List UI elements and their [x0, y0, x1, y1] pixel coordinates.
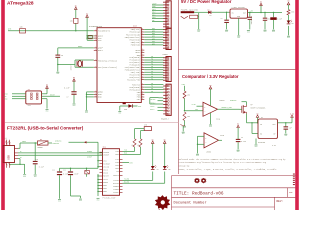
- sparkfun flame logo: [155, 195, 170, 212]
- svg-text:2X3: 2X3: [28, 105, 31, 107]
- USB connector J2: [3, 138, 14, 168]
- section line ATmega bottom: [5, 121, 178, 123]
- wire L13: [120, 106, 129, 111]
- ground power LED: [287, 36, 290, 39]
- svg-text:GND: GND: [237, 151, 240, 153]
- svg-text:9: 9: [142, 61, 143, 63]
- svg-text:5V: 5V: [237, 123, 239, 125]
- svg-text:GND: GND: [23, 176, 26, 178]
- svg-text:9: 9: [142, 33, 143, 35]
- svg-text:9: 9: [142, 71, 143, 73]
- svg-text:9: 9: [142, 36, 143, 38]
- svg-text:D13: D13: [152, 9, 155, 11]
- svg-text:RXLED: RXLED: [124, 182, 129, 184]
- svg-text:IN: IN: [232, 12, 234, 14]
- svg-text:RX: RX: [169, 169, 171, 171]
- wires 5V to VCC pins: [86, 35, 93, 40]
- title block frame: [172, 176, 296, 210]
- svg-text:GND: GND: [225, 31, 228, 33]
- svg-text:IN: IN: [260, 124, 262, 126]
- capacitor divider bypass: [180, 124, 185, 131]
- svg-text:USBVCC: USBVCC: [55, 141, 61, 143]
- title block side marks: [293, 174, 295, 186]
- svg-text:5V: 5V: [75, 5, 77, 7]
- wires to JP4: [150, 99, 163, 111]
- ground C8: [284, 134, 287, 137]
- capacitor C12: [63, 168, 80, 198]
- power jack X1: [181, 8, 199, 18]
- wire diode to regulator: [212, 12, 230, 13]
- svg-text:5V: 5V: [73, 77, 75, 79]
- ground C12: [79, 199, 82, 202]
- svg-text:1: 1: [95, 96, 96, 98]
- resistor R6 rx: [123, 131, 145, 155]
- right border bar: [295, 0, 299, 210]
- ground jack: [197, 30, 200, 33]
- svg-text:ATMEGA328P: ATMEGA328P: [89, 25, 103, 28]
- svg-text:GND: GND: [182, 133, 185, 135]
- svg-text:OUT: OUT: [243, 12, 246, 14]
- svg-text:1: 1: [95, 29, 96, 31]
- wire ISP RESET: [42, 95, 61, 97]
- svg-text:Comparator / 3.3V Regulator: Comparator / 3.3V Regulator: [182, 74, 239, 79]
- fuse F1 500mA: [38, 139, 49, 149]
- ground C1: [225, 30, 228, 33]
- svg-text:GND: GND: [79, 200, 82, 202]
- svg-text:3.3V: 3.3V: [191, 104, 195, 106]
- capacitor C7 0.1uF: [64, 88, 77, 104]
- wire D-: [15, 151, 103, 153]
- svg-text:U2: U2: [261, 117, 263, 119]
- svg-text:ATmega328: ATmega328: [7, 0, 34, 6]
- capacitor C6 AREF: [55, 48, 63, 72]
- svg-text:-: -: [204, 110, 205, 113]
- svg-text:GND: GND: [272, 31, 275, 33]
- svg-text:POWER_JACKSMD: POWER_JACKSMD: [181, 8, 199, 11]
- svg-text:16MHz: 16MHz: [71, 65, 73, 70]
- wire divider to comparator: [185, 109, 204, 111]
- svg-text:Names, D.Cuartielles, T.Igoe,: Names, D.Cuartielles, T.Igoe, G.Martino,…: [179, 168, 277, 171]
- svg-text:USBDP: USBDP: [87, 157, 92, 159]
- svg-text:9: 9: [142, 93, 143, 95]
- svg-text:TXLED: TXLED: [124, 179, 129, 181]
- voltage regulator U2 MIC5205: [258, 117, 278, 147]
- IC U1 ATMEGA328P body: [89, 25, 141, 103]
- svg-text:D12: D12: [152, 12, 155, 14]
- svg-text:9: 9: [142, 78, 143, 80]
- svg-text:9: 9: [142, 96, 143, 98]
- wire Q1 drain to regulator: [240, 109, 259, 123]
- capacitor C1 input: [221, 12, 229, 29]
- svg-text:MOSFET-PCHANNEL: MOSFET-PCHANNEL: [251, 106, 266, 109]
- svg-text:ADC: ADC: [152, 37, 155, 40]
- supply 5V arrow C7: [73, 77, 76, 91]
- svg-text:AREF: AREF: [152, 3, 156, 6]
- header JP2: [166, 28, 171, 49]
- svg-text:GND: GND: [73, 105, 76, 107]
- wire jack to gnd: [198, 13, 200, 29]
- section divider horizontal: [178, 68, 295, 70]
- svg-text:GND: GND: [58, 201, 61, 203]
- ground C2: [247, 30, 250, 33]
- svg-text:0.1uF: 0.1uF: [39, 167, 44, 169]
- supply 3.3V arrow out: [290, 113, 294, 123]
- resistor R5 tx: [123, 129, 145, 152]
- wires to JP1: [152, 3, 163, 22]
- svg-text:1K: 1K: [137, 144, 139, 146]
- wire comparator out: [218, 107, 240, 109]
- svg-text:RXD: RXD: [124, 153, 127, 155]
- resistor R1 10K: [20, 27, 26, 33]
- svg-text:C4: C4: [241, 137, 243, 139]
- ground ft232 bus gnd: [97, 198, 100, 201]
- svg-text:D11: D11: [152, 14, 155, 16]
- svg-text:9: 9: [142, 28, 143, 30]
- svg-text:C12: C12: [63, 169, 66, 171]
- wire D+: [15, 155, 103, 159]
- svg-text:9: 9: [142, 73, 143, 75]
- svg-text:100uF/25V: 100uF/25V: [251, 16, 253, 25]
- svg-text:0.1uF: 0.1uF: [64, 88, 69, 90]
- svg-text:SLEEP: SLEEP: [113, 191, 120, 194]
- capacitor C2 100uF: [248, 13, 254, 30]
- svg-text:C6: C6: [61, 55, 63, 57]
- svg-text:9: 9: [142, 54, 143, 56]
- svg-text:Q1: Q1: [251, 104, 253, 106]
- wires ISP left: [3, 93, 26, 101]
- svg-text:0.1uF: 0.1uF: [241, 141, 246, 143]
- wires to JP3: [144, 56, 163, 93]
- svg-text:C11: C11: [52, 169, 55, 171]
- ground ISP: [42, 99, 49, 113]
- ground regulator U2: [255, 139, 258, 149]
- wire cap rail: [60, 168, 99, 169]
- svg-text:1: 1: [95, 47, 96, 49]
- small flame logo 1: [194, 178, 200, 184]
- IC U3 FT232RL body: [103, 146, 120, 200]
- svg-text:5V: 5V: [209, 85, 211, 87]
- svg-text:3.3V: 3.3V: [272, 145, 276, 147]
- svg-text:Document Number: Document Number: [174, 200, 207, 205]
- capacitor C4 tantalum: [270, 13, 282, 30]
- svg-text:C1: C1: [221, 18, 223, 20]
- svg-text:MIC5205: MIC5205: [258, 142, 265, 144]
- wire to resonator: [58, 64, 75, 66]
- svg-text:CMP: CMP: [195, 109, 198, 111]
- svg-text:5V: 5V: [152, 139, 154, 141]
- svg-text:USB: USB: [8, 155, 11, 160]
- svg-text:RESET: RESET: [50, 95, 55, 97]
- LED L13: [123, 102, 143, 111]
- left border bar: [1, 0, 5, 210]
- svg-text:ADC: ADC: [152, 27, 155, 30]
- svg-text:USBVCC: USBVCC: [53, 143, 59, 145]
- wire 3.3V out: [278, 122, 293, 123]
- capacitor C10 vbus: [33, 143, 44, 174]
- svg-text:PB7(XTAL2/TOSC2): PB7(XTAL2/TOSC2): [98, 66, 117, 69]
- solder jumper DTR: [144, 125, 151, 131]
- svg-text:C7: C7: [67, 97, 69, 99]
- header JP3 analog/power: [166, 57, 171, 82]
- svg-text:0.1uF: 0.1uF: [277, 19, 282, 21]
- svg-text:5V: 5V: [46, 84, 48, 86]
- svg-text:TX: TX: [157, 169, 159, 171]
- svg-text:GND: GND: [97, 199, 100, 201]
- svg-text:1: 1: [95, 35, 96, 37]
- svg-text:ADC7: ADC7: [98, 49, 104, 52]
- svg-text:ADC: ADC: [152, 43, 155, 46]
- wires AGND GND bus: [86, 92, 94, 110]
- svg-text:LM358: LM358: [206, 152, 211, 154]
- svg-text:GND: GND: [287, 37, 290, 39]
- svg-text:1uF: 1uF: [289, 128, 292, 130]
- svg-text:9: 9: [142, 68, 143, 70]
- svg-text:330: 330: [124, 109, 127, 111]
- svg-text:MOSFET_CMD: MOSFET_CMD: [222, 107, 232, 109]
- svg-text:1: 1: [95, 66, 96, 68]
- svg-text:GND: GND: [237, 37, 240, 39]
- svg-text:REV:: REV:: [277, 200, 284, 203]
- supply 5V arrow RX led: [163, 139, 166, 166]
- svg-text:GND: GND: [152, 6, 155, 8]
- svg-text:1K: 1K: [131, 144, 133, 146]
- svg-text:USBVCC: USBVCC: [230, 100, 236, 102]
- IC U3 right pins: [113, 150, 122, 194]
- wire USB gnd: [10, 159, 25, 174]
- wire loop JP4 top: [150, 98, 163, 104]
- svg-text:10K: 10K: [187, 116, 190, 118]
- resistor R2 vertical: [70, 18, 78, 23]
- svg-text:RI: RI: [117, 170, 119, 173]
- op-amp IC2B: [197, 133, 224, 154]
- wire EN tie: [252, 123, 258, 134]
- svg-text:GND: GND: [255, 146, 258, 148]
- svg-text:1: 1: [95, 37, 96, 39]
- small flame logo 2: [201, 178, 207, 184]
- svg-text:GND: GND: [46, 110, 49, 112]
- ground C11: [58, 200, 61, 203]
- svg-text:D10: D10: [152, 17, 155, 19]
- svg-text:POWER: POWER: [163, 54, 168, 56]
- ground L13: [118, 111, 121, 114]
- svg-text:1: 1: [95, 49, 96, 51]
- svg-text:GND: GND: [264, 31, 267, 33]
- ground IC2A: [209, 113, 212, 128]
- svg-text:10uF: 10uF: [74, 173, 78, 175]
- svg-text:1: 1: [95, 91, 96, 93]
- svg-text:9: 9: [142, 83, 143, 85]
- wires to JP2: [144, 27, 163, 46]
- ground C3: [264, 30, 267, 33]
- net label USBVCC ft232: [55, 141, 98, 144]
- svg-text:SCK2: SCK2: [150, 106, 154, 108]
- transistor Q1 MOSFET-PCHANNEL: [242, 104, 266, 114]
- svg-text:OUT: OUT: [272, 124, 275, 126]
- svg-text:5V: 5V: [260, 2, 262, 4]
- svg-text:9: 9: [142, 49, 143, 51]
- svg-text:PC6(RESET): PC6(RESET): [98, 30, 110, 33]
- svg-text:9: 9: [142, 38, 143, 40]
- svg-text:9: 9: [142, 66, 143, 68]
- svg-text:9: 9: [142, 31, 143, 33]
- resonator Y1 16MHz: [71, 60, 94, 71]
- ground AGND bus: [85, 111, 88, 114]
- svg-text:D-: D-: [20, 151, 22, 153]
- ground C5: [237, 150, 240, 153]
- svg-text:V_REG_78XXSMD: V_REG_78XXSMD: [232, 7, 245, 9]
- supply 5V arrow R1: [75, 5, 78, 18]
- svg-text:MISO2: MISO2: [150, 99, 155, 101]
- wire VCC bus: [97, 142, 99, 168]
- license text block: [179, 158, 287, 171]
- IC U1 right pins: [125, 28, 145, 101]
- svg-text:GND: GND: [237, 16, 240, 18]
- svg-text:5V: 5V: [86, 13, 88, 15]
- svg-text:GND: GND: [118, 112, 121, 114]
- svg-text:PD: PD: [151, 91, 153, 93]
- resistor R3 divider top: [183, 86, 190, 112]
- capacitor C11: [52, 168, 68, 199]
- svg-text:J1: J1: [28, 89, 30, 91]
- svg-text:TXD: TXD: [124, 150, 127, 152]
- section divider vertical: [177, 0, 179, 174]
- ferrite bead FB1: [88, 35, 92, 39]
- ground C10: [34, 175, 37, 178]
- svg-text:5V: 5V: [164, 139, 166, 141]
- svg-text:PB6(XTAL1/TOSC1): PB6(XTAL1/TOSC1): [98, 59, 117, 62]
- svg-text:PD4(XCK/T0): PD4(XCK/T0): [127, 78, 140, 81]
- svg-text:D9: D9: [152, 20, 154, 22]
- svg-text:GND: GND: [85, 112, 88, 114]
- svg-text:EN: EN: [260, 133, 262, 135]
- svg-text:GND: GND: [247, 31, 250, 33]
- svg-text:(2): (2): [5, 138, 8, 140]
- supply 5V arrow IC2A: [209, 85, 212, 106]
- op-amp IC2A: [203, 100, 224, 120]
- svg-text:9: 9: [142, 44, 143, 46]
- supply 5V arrow rail: [260, 2, 263, 13]
- supply 5V arrow VCC: [86, 13, 89, 40]
- header JP1 digital: [166, 1, 171, 28]
- LED RX: [123, 165, 171, 183]
- svg-text:9: 9: [142, 41, 143, 43]
- wire RESET net: [8, 29, 94, 31]
- svg-text:ADC: ADC: [152, 35, 155, 38]
- svg-text:F1: F1: [40, 139, 42, 141]
- power LED stack: [287, 1, 295, 36]
- net label 3.3V stub: [191, 104, 203, 106]
- svg-text:9: 9: [142, 56, 143, 58]
- svg-text:5V / DC Power Regulator: 5V / DC Power Regulator: [181, 0, 232, 4]
- svg-text:creativecommons.org/licenses/b: creativecommons.org/licenses/by-sa/3.0 l…: [179, 161, 266, 164]
- voltage regulator U1 7805: [230, 7, 248, 35]
- net label USBVCC mosfet: [230, 100, 247, 105]
- svg-text:M7: M7: [210, 15, 212, 17]
- svg-text:TITLE: RedBoard-v06: TITLE: RedBoard-v06: [174, 191, 224, 196]
- svg-text:1: 1: [95, 59, 96, 61]
- svg-text:BP: BP: [273, 133, 275, 135]
- wire USBVCC label: [48, 143, 59, 145]
- svg-text:9: 9: [142, 91, 143, 93]
- svg-text:C10: C10: [35, 159, 38, 161]
- svg-text:GND: GND: [284, 135, 287, 137]
- wire R2 to RESET: [75, 23, 76, 31]
- ground regulator: [237, 36, 240, 39]
- supply 5V arrow ISP: [42, 84, 49, 93]
- svg-text:VBUS: VBUS: [22, 141, 26, 143]
- svg-text:9: 9: [142, 76, 143, 78]
- svg-text:DTR: DTR: [144, 125, 147, 127]
- svg-text:FT232RL-SSOP: FT232RL-SSOP: [103, 198, 116, 200]
- svg-text:1: 1: [95, 39, 96, 41]
- svg-text:LM358: LM358: [219, 100, 224, 102]
- wire VBUS: [15, 141, 38, 148]
- ground divider: [183, 126, 186, 129]
- IC U1 left pins: [94, 29, 117, 98]
- wire jack to diode: [194, 11, 208, 13]
- capacitor C5 comparator decoupling: [236, 123, 246, 149]
- svg-text:GND: GND: [197, 31, 200, 33]
- supply 5V arrow TX led: [151, 139, 154, 166]
- svg-text:-: -: [205, 141, 206, 144]
- svg-text:CBUS4: CBUS4: [113, 174, 120, 177]
- svg-text:USBDM: USBDM: [87, 151, 92, 153]
- svg-text:GND: GND: [34, 176, 37, 178]
- capacitor C3 10uF: [263, 13, 271, 30]
- svg-text:PD0(RXD): PD0(RXD): [131, 44, 141, 47]
- ground C4: [272, 30, 275, 33]
- svg-text:+5V: +5V: [250, 10, 253, 12]
- ground bypass: [182, 132, 185, 135]
- svg-text:ADC: ADC: [152, 40, 155, 43]
- svg-text:9: 9: [142, 51, 143, 53]
- diode D1 M7: [208, 10, 212, 17]
- supply 5V arrow U2 in: [256, 113, 259, 123]
- svg-text:GND: GND: [209, 126, 212, 128]
- wire DTR out: [123, 163, 133, 165]
- svg-text:9: 9: [142, 86, 143, 88]
- ground below C6: [56, 72, 59, 75]
- svg-text:USBDP: USBDP: [103, 154, 110, 157]
- svg-text:9: 9: [142, 98, 143, 100]
- svg-text:DTR: DTR: [130, 163, 133, 165]
- svg-text:330: 330: [291, 12, 294, 14]
- svg-text:1: 1: [95, 93, 96, 95]
- svg-text:9: 9: [142, 64, 143, 66]
- resistor R4 divider bottom: [183, 112, 190, 125]
- svg-text:10K: 10K: [187, 95, 190, 97]
- ground IC2B: [196, 154, 199, 157]
- ground bus ft232: [97, 174, 99, 196]
- svg-text:0.1uF: 0.1uF: [63, 173, 68, 175]
- svg-text:IC2B: IC2B: [220, 135, 224, 137]
- ground USB shield: [23, 175, 26, 178]
- svg-text:ADC: ADC: [152, 30, 155, 33]
- ground below C7: [73, 104, 76, 107]
- wire AREF: [58, 45, 94, 48]
- ISP header J1 2x3: [26, 89, 42, 107]
- IC U3 left pins: [100, 151, 111, 193]
- svg-text:PD: PD: [151, 78, 153, 80]
- wire 5V rail: [248, 10, 283, 13]
- svg-text:ON: ON: [292, 23, 294, 25]
- svg-text:9: 9: [142, 88, 143, 90]
- svg-text:HEADER_7: HEADER_7: [161, 117, 169, 120]
- svg-text:AREF: AREF: [78, 45, 82, 48]
- svg-text:FT232RL (USB-to-Serial Convert: FT232RL (USB-to-Serial Converter): [7, 126, 84, 131]
- header JP4 serial: [161, 84, 171, 120]
- svg-text:GND: GND: [196, 155, 199, 157]
